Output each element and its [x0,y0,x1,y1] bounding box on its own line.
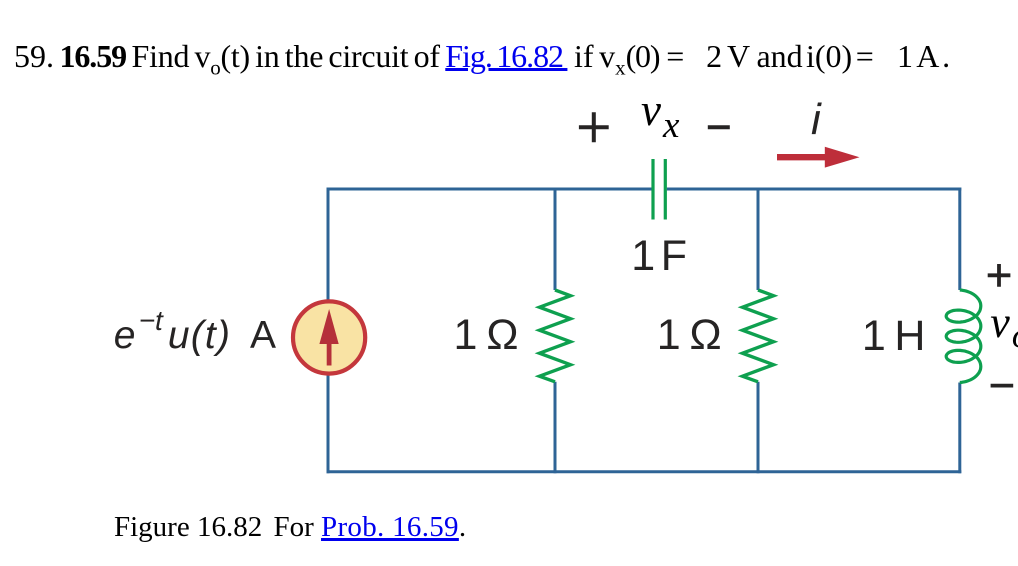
label: resistor R1 value 1 ohm [454,314,518,357]
figure caption [114,513,466,542]
current source arrow (up) [327,342,332,366]
wire: left vertical lower segment [327,374,330,473]
wire: middle branch 1 lower stub [554,382,557,474]
current source IS circle [293,301,365,373]
label: inductor plus sign [988,264,1011,287]
label: capacitor plus sign [579,112,609,142]
label: source expression e^-t u(t) A [114,316,277,355]
label: inductor value 1 H [862,315,926,358]
label: inductor voltage v [990,301,1018,345]
resistor R2 (1 ohm) zigzag [743,290,774,382]
label: inductor minus sign [991,384,1014,388]
wire: middle branch 2 lower stub [757,382,760,474]
wire: top-left horizontal segment (source to capacitor) [327,188,652,191]
label: capacitor minus sign [708,125,730,129]
problem statement text line [14,40,950,78]
label: current i [811,98,821,142]
inductor L (1 H) coil [946,290,981,383]
label: resistor R2 value 1 ohm [657,314,721,357]
wire: bottom horizontal segment [327,470,962,473]
wire: right vertical lower stub [958,383,961,474]
wire: top-right horizontal segment (capacitor to top-right corner) [667,188,962,191]
resistor R1 (1 ohm) zigzag [540,290,571,382]
label: capacitor voltage vx [641,88,679,133]
capacitor C (1 F) plates [653,159,665,220]
current arrow i (red, pointing right) [777,154,828,160]
wire: middle branch 2 upper stub [757,188,760,291]
label: capacitor value 1 F [631,235,685,278]
wire: left vertical upper segment [327,188,330,302]
wire: middle branch 1 upper stub [554,188,557,291]
wire: right vertical upper stub [958,188,961,291]
